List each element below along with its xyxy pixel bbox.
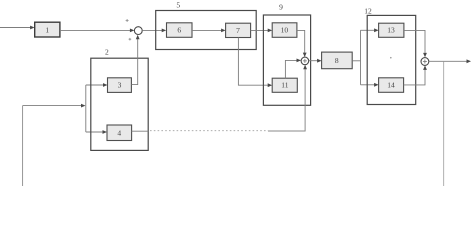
- block 7: [226, 23, 251, 37]
- svg-text:1: 1: [45, 25, 49, 34]
- subsystem box 2: [91, 58, 148, 150]
- branch vertical wire: [360, 30, 362, 85]
- wire block 7 to block 10: [251, 29, 269, 31]
- wire block 7 down and right to block 11: [238, 38, 269, 86]
- wire feedback tap down from output: [443, 61, 445, 186]
- subsystem box 5: [156, 11, 257, 50]
- wire summing junction S2 to block 8: [309, 60, 318, 62]
- wire block 13 down into summing junction S3: [404, 30, 425, 54]
- wire branch to block 13: [361, 29, 376, 31]
- wire node to block 3: [86, 84, 104, 86]
- wire block 10 down into summing junction S2: [297, 30, 305, 53]
- svg-text:4: 4: [117, 128, 121, 137]
- distribution vertical wire: [85, 85, 87, 132]
- wire node to block 4: [86, 131, 104, 133]
- svg-text:6: 6: [177, 26, 181, 35]
- wire block 4 dashed segment: [150, 130, 268, 132]
- svg-text:11: 11: [281, 81, 288, 90]
- block 3: [108, 78, 132, 93]
- sign mark below summing junction S1: [129, 38, 132, 41]
- summing junction S2: [301, 57, 309, 65]
- block 14: [379, 78, 404, 93]
- sign mark plus above summing junction S1: [126, 19, 129, 22]
- block 13: [379, 23, 404, 37]
- wire summing junction S1 to block 6: [142, 29, 162, 31]
- block 10: [272, 23, 297, 38]
- wire output: [429, 60, 467, 62]
- block 1: [35, 22, 60, 37]
- svg-text:7: 7: [236, 26, 240, 35]
- wire block 6 to block 7: [192, 29, 222, 31]
- wire block 1 to summing junction S1: [60, 29, 131, 31]
- svg-text:13: 13: [387, 26, 395, 35]
- wire block 14 up into summing junction S3: [404, 69, 425, 85]
- subsystem box 12: [367, 15, 416, 104]
- block 4: [107, 125, 132, 141]
- block 8: [322, 52, 353, 69]
- wire branch to block 14: [361, 84, 375, 86]
- svg-text:3: 3: [118, 81, 122, 90]
- wire block 11 up into summing junction S2: [285, 60, 297, 78]
- subsystem box 9: [263, 15, 310, 105]
- svg-text:10: 10: [281, 26, 289, 35]
- wire input to block 1: [0, 27, 31, 29]
- svg-text:2: 2: [105, 48, 109, 57]
- svg-text:5: 5: [176, 1, 180, 10]
- wire feedback into distribution node: [23, 105, 82, 107]
- wire block 8 to branch node: [352, 60, 360, 62]
- block 11: [272, 78, 297, 92]
- svg-text:12: 12: [364, 7, 372, 16]
- dot inside box 12: [390, 57, 392, 59]
- summing junction S3: [421, 58, 429, 66]
- wire feedback left vertical: [22, 106, 24, 186]
- wire block 4 solid segment to vertical: [268, 130, 306, 132]
- svg-text:9: 9: [279, 3, 283, 12]
- wire feedback from block 4 up into summing junction S2: [304, 68, 306, 131]
- block 6: [167, 23, 193, 38]
- wire block 3 up into summing junction S1: [131, 38, 137, 84]
- svg-text:14: 14: [387, 80, 395, 89]
- svg-text:8: 8: [335, 56, 339, 65]
- summing junction S1: [134, 27, 142, 35]
- wire block 4 right solid segment: [132, 130, 149, 132]
